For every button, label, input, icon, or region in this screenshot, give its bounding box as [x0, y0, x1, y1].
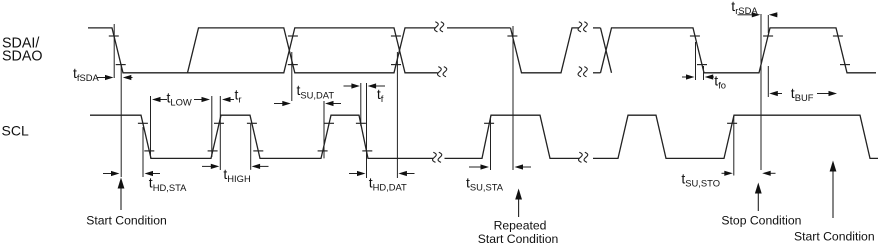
svg-text:SCL: SCL	[2, 123, 29, 139]
svg-text:SDAO: SDAO	[2, 48, 43, 64]
svg-text:Repeated: Repeated	[494, 218, 547, 232]
svg-text:Start Condition: Start Condition	[478, 232, 559, 244]
svg-text:Stop Condition: Stop Condition	[721, 213, 801, 227]
svg-text:Start Condition: Start Condition	[794, 230, 875, 244]
svg-text:Start Condition: Start Condition	[86, 213, 167, 227]
